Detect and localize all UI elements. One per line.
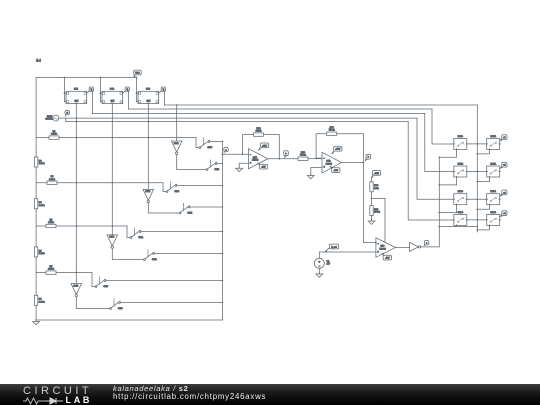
svg-text:SW5: SW5 <box>208 147 213 149</box>
svg-text:1.2kΩ: 1.2kΩ <box>39 253 45 255</box>
svg-text:RE3A: RE3A <box>490 190 496 193</box>
svg-text:REL1: REL1 <box>458 136 464 138</box>
svg-text:b_out: b_out <box>331 245 337 248</box>
svg-text:RE4A: RE4A <box>490 211 496 214</box>
svg-text:BUF4: BUF4 <box>74 285 79 287</box>
svg-text:-10V: -10V <box>334 170 339 172</box>
svg-text:SW1: SW1 <box>139 237 144 239</box>
svg-text:1.2kΩ: 1.2kΩ <box>39 205 45 207</box>
svg-text:LM324: LM324 <box>326 163 333 165</box>
svg-text:700 Ω: 700 Ω <box>329 130 335 132</box>
svg-text:2.2kΩ: 2.2kΩ <box>49 179 55 181</box>
svg-text:BT1: BT1 <box>74 89 79 91</box>
svg-text:RE2A: RE2A <box>490 163 496 166</box>
svg-text:1.2kΩ: 1.2kΩ <box>39 301 45 303</box>
svg-text:+10V: +10V <box>335 149 341 151</box>
svg-text:0.4: 0.4 <box>36 58 41 62</box>
svg-text:10 kΩ: 10 kΩ <box>374 212 380 214</box>
svg-text:1 kΩ: 1 kΩ <box>374 188 379 190</box>
svg-text:BUF3: BUF3 <box>110 237 115 239</box>
svg-text:REL3: REL3 <box>458 191 464 193</box>
svg-text:-10V: -10V <box>261 167 266 169</box>
svg-text:SW6: SW6 <box>215 169 220 171</box>
svg-text:VDD: VDD <box>135 72 140 74</box>
svg-text:BT3: BT3 <box>146 89 151 91</box>
svg-text:SW4: SW4 <box>188 212 193 214</box>
svg-text:BUF2: BUF2 <box>146 191 151 193</box>
svg-text:LM324: LM324 <box>380 248 387 250</box>
svg-text:2.2kΩ: 2.2kΩ <box>48 222 54 224</box>
svg-text:BT2: BT2 <box>110 89 115 91</box>
svg-text:SW7: SW7 <box>104 286 109 288</box>
svg-text:REL2: REL2 <box>458 164 464 166</box>
svg-text:2.2kΩ: 2.2kΩ <box>51 134 57 136</box>
svg-text:100 Hz: 100 Hz <box>45 118 52 120</box>
svg-text:2.2kΩ: 2.2kΩ <box>48 269 54 271</box>
svg-text:c: c <box>426 243 427 245</box>
svg-text:BUF1: BUF1 <box>174 143 179 145</box>
svg-text:+10V: +10V <box>262 145 268 147</box>
svg-text:SW2: SW2 <box>152 259 157 261</box>
svg-text:LM324: LM324 <box>252 159 259 161</box>
svg-text:SW3: SW3 <box>175 191 180 193</box>
svg-text:-10V: -10V <box>385 258 390 260</box>
svg-text:+10V: +10V <box>374 173 380 175</box>
svg-text:1 V: 1 V <box>327 263 331 265</box>
svg-text:SW8: SW8 <box>118 308 123 310</box>
svg-text:1.2kΩ: 1.2kΩ <box>39 163 45 165</box>
svg-text:REL4: REL4 <box>458 212 464 214</box>
svg-text:1.2kΩ: 1.2kΩ <box>256 131 262 133</box>
svg-text:500 Ω: 500 Ω <box>300 155 306 157</box>
svg-text:RE1A: RE1A <box>490 135 496 138</box>
